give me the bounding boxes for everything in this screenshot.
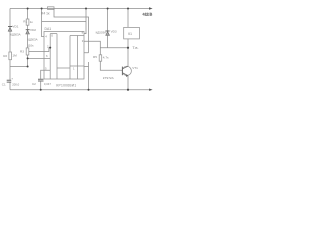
- svg-text:1М: 1М: [12, 54, 17, 58]
- svg-text:R1: R1: [23, 20, 27, 24]
- node +12V arrow: [149, 7, 153, 9]
- wire bottom rail: [10, 89, 151, 91]
- svg-text:R5: R5: [93, 55, 97, 59]
- svg-text:G: G: [51, 33, 53, 37]
- wire top rail: [10, 8, 151, 10]
- svg-text:Т.в.: Т.в.: [132, 45, 138, 50]
- wire pin3 output: [84, 41, 100, 55]
- svg-text:КД503А: КД503А: [27, 38, 37, 42]
- resistor R5: [99, 55, 102, 61]
- svg-text:С1: С1: [2, 83, 6, 87]
- svg-text:К1: К1: [128, 32, 132, 36]
- diode VD3: [107, 9, 109, 31]
- svg-text:VD2: VD2: [30, 28, 36, 32]
- diode VD1: [8, 26, 12, 28]
- wire base: [100, 61, 122, 70]
- node bottom-right arrow: [149, 89, 153, 91]
- wire pin2: [29, 48, 50, 52]
- svg-text:+: +: [11, 76, 13, 80]
- svg-text:VT1: VT1: [132, 66, 138, 70]
- svg-text:R2: R2: [3, 54, 7, 58]
- wire vcc drop: [54, 9, 89, 90]
- svg-text:КТ972А: КТ972А: [103, 76, 115, 80]
- svg-text:С2: С2: [32, 82, 36, 86]
- op-amp U1 / timer DA1 box: [44, 32, 84, 80]
- svg-text:VD1: VD1: [12, 24, 18, 28]
- wire junction row to left rail: [10, 66, 28, 68]
- label pins: [45, 31, 84, 71]
- resistor R4: [48, 7, 55, 10]
- relay K1: [127, 9, 129, 28]
- svg-text:DA1: DA1: [45, 27, 52, 31]
- svg-text:6: 6: [46, 54, 48, 58]
- wire R3 lead: [27, 34, 29, 48]
- svg-text:3: 3: [82, 39, 84, 43]
- wire left rail: [9, 9, 11, 90]
- resistor R1: [27, 9, 29, 20]
- svg-text:200,0: 200,0: [12, 83, 19, 87]
- svg-text:1: 1: [73, 67, 75, 71]
- wire VD2 lead: [27, 25, 29, 29]
- wire pin8 riser: [84, 9, 86, 34]
- wire collector node row: [100, 47, 128, 49]
- capacitor C2: [38, 79, 44, 81]
- wire pin4 riser: [42, 9, 44, 37]
- svg-text:0,047: 0,047: [44, 82, 51, 86]
- svg-text:5: 5: [45, 67, 47, 71]
- svg-text:4,7к: 4,7к: [103, 56, 109, 60]
- svg-text:1к: 1к: [30, 20, 34, 24]
- resistor R3: [26, 48, 29, 55]
- svg-text:VD3: VD3: [111, 30, 117, 34]
- svg-text:R3: R3: [20, 50, 24, 54]
- svg-text:4: 4: [45, 35, 47, 39]
- svg-text:КД503А: КД503А: [96, 31, 106, 35]
- svg-text:110к: 110к: [27, 44, 34, 48]
- wire upper horizontal to pin7: [42, 21, 86, 23]
- svg-text:+12 В: +12 В: [143, 13, 153, 17]
- diode VD2: [26, 29, 30, 31]
- wire C2 riser and pin5: [41, 70, 51, 89]
- svg-text:КД503А: КД503А: [10, 33, 20, 37]
- resistor R2: [9, 52, 12, 60]
- capacitor C1: [7, 80, 12, 82]
- junction dots: [27, 8, 130, 91]
- wire pin6: [28, 57, 51, 59]
- svg-text:КР1006ВИ1: КР1006ВИ1: [56, 83, 76, 87]
- svg-text:R4 1к: R4 1к: [41, 12, 50, 16]
- wire pin gnd stub: [84, 66, 89, 68]
- wire R3 bottom to junction: [27, 55, 29, 67]
- transistor Q1 VT1: [122, 66, 131, 75]
